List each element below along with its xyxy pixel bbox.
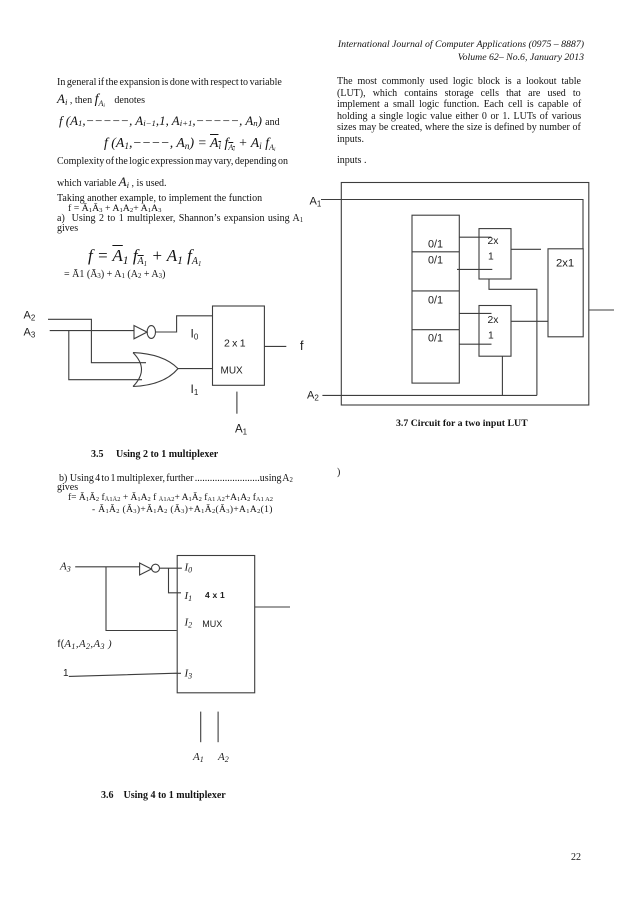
svg-text:f: f (300, 339, 304, 353)
label 0/1 cell 4 (428, 333, 443, 345)
svg-text:I1: I1 (191, 382, 199, 397)
label I2 (4x1) (184, 617, 193, 630)
wire upper mux output (511, 248, 541, 250)
RIGHT COLUMN TEXT (337, 77, 581, 87)
label MUX (4x1) (202, 619, 222, 629)
wire select A1 (200, 712, 202, 743)
svg-text:0/1: 0/1 (428, 238, 443, 250)
svg-text:2x: 2x (488, 236, 500, 247)
wire constant 1 to I3 (69, 673, 181, 676)
label I1 (191, 382, 199, 397)
label A2 (LUT input) (307, 390, 319, 403)
svg-text:I0: I0 (191, 326, 199, 341)
wire A1 to right 2x1 select (321, 200, 583, 249)
label I3 (4x1) (184, 668, 193, 681)
svg-text:1: 1 (63, 668, 69, 679)
wire LUT output (589, 309, 614, 311)
svg-text:4 x 1: 4 x 1 (205, 590, 225, 600)
wire OR output to I1 (178, 368, 213, 370)
label A1 select (235, 424, 248, 437)
wire cell1 to upper mux (459, 236, 491, 238)
svg-text:2x: 2x (488, 315, 500, 326)
label 4 x 1 (205, 590, 225, 600)
wire inverter output to I0 (156, 316, 213, 332)
wire MUX select A1 (236, 392, 238, 414)
wire MUX output f (264, 345, 286, 347)
wire lower mux output (511, 320, 548, 322)
label lower mux 2x1 (488, 315, 500, 342)
inverter (NOT gate) on A3 (134, 326, 156, 339)
svg-text:f(A1,A2,A3 ): f(A1,A2,A3 ) (58, 638, 112, 651)
wire cell3 to lower mux (459, 312, 492, 314)
wire upper mux select to A2 (489, 279, 537, 395)
svg-text:MUX: MUX (221, 365, 244, 376)
wire select A2 (217, 712, 219, 743)
right 2x1 mux box (548, 249, 583, 337)
svg-text:0/1: 0/1 (428, 255, 443, 267)
2x1 MUX box (213, 306, 265, 385)
label I0 (4x1) (184, 562, 193, 575)
svg-text:I3: I3 (184, 668, 193, 681)
svg-text:I1: I1 (184, 590, 193, 603)
label upper mux 2x1 (488, 236, 500, 263)
svg-text:I0: I0 (184, 562, 193, 575)
wire A3 branch to I2 (106, 567, 177, 631)
header line 1 (338, 40, 584, 50)
label A2 (left circuit) (24, 310, 36, 323)
svg-text:A2: A2 (307, 390, 319, 403)
label 0/1 cell 3 (428, 295, 443, 307)
LUT storage cell column (412, 215, 459, 383)
wire A3 branch to OR gate lower input (69, 331, 142, 380)
label A3 (left circuit) (24, 327, 36, 340)
wire A3 to 4x1 inverter (75, 566, 139, 568)
wire lower mux select to A2 (501, 356, 503, 395)
section heading 3.5 (91, 450, 218, 460)
svg-text:A1: A1 (192, 751, 204, 764)
inverter (NOT gate) 4x1 circuit (140, 563, 160, 575)
svg-text:I2: I2 (184, 617, 193, 630)
label A1 (4x1 select) (192, 751, 204, 764)
label MUX (221, 365, 244, 376)
svg-text:1: 1 (488, 252, 494, 263)
label A3 (4x1 circuit input) (59, 561, 71, 574)
closing parenthesis mark right column (337, 468, 340, 478)
LEFT COLUMN TEXT (57, 78, 282, 88)
wire cell4 to lower mux (459, 343, 492, 345)
label A1 (LUT input) (310, 196, 322, 209)
wire 4x1 MUX output (255, 606, 290, 608)
section heading 3.6 (101, 791, 226, 801)
svg-text:2x1: 2x1 (556, 258, 574, 270)
svg-text:0/1: 0/1 (428, 295, 443, 307)
svg-text:A1: A1 (310, 196, 322, 209)
wire branch to I1 (169, 568, 182, 593)
label 0/1 cell 1 (428, 238, 443, 250)
svg-text:2 x 1: 2 x 1 (224, 338, 246, 350)
label 0/1 cell 2 (428, 255, 443, 267)
OR gate (133, 353, 178, 387)
wire cell2 to upper mux (457, 268, 492, 270)
svg-text:A2: A2 (217, 751, 229, 764)
svg-text:MUX: MUX (202, 619, 222, 629)
upper 2x1 mux box (479, 229, 511, 279)
wire inverter output to I0 (160, 567, 182, 569)
svg-text:A2: A2 (24, 310, 36, 323)
label A2 (4x1 select) (217, 751, 229, 764)
svg-text:A3: A3 (59, 561, 71, 574)
caption 3.7 (396, 419, 528, 429)
wire A2 input to OR gate (left 2x1 mux circuit) (48, 319, 146, 362)
label f output (300, 339, 304, 353)
svg-text:A1: A1 (235, 424, 248, 437)
lower 2x1 mux box (479, 306, 511, 357)
label right mux 2x1 (556, 258, 574, 270)
paragraph b) (59, 474, 293, 484)
wire A2 into LUT (322, 394, 537, 396)
label I0 (191, 326, 199, 341)
svg-text:0/1: 0/1 (428, 333, 443, 345)
label f(A1,A2,A3) (58, 638, 112, 651)
LUT outer box (341, 183, 589, 406)
4x1 MUX box (177, 556, 255, 693)
header line 2 (458, 53, 584, 63)
wire A3 input to inverter (50, 330, 134, 332)
big Shannon formula (88, 247, 201, 264)
page number (571, 853, 581, 863)
label I1 (4x1) (184, 590, 193, 603)
svg-text:1: 1 (488, 330, 494, 341)
svg-text:A3: A3 (24, 327, 36, 340)
label constant 1 (63, 668, 69, 679)
label 2 x 1 (224, 338, 246, 350)
